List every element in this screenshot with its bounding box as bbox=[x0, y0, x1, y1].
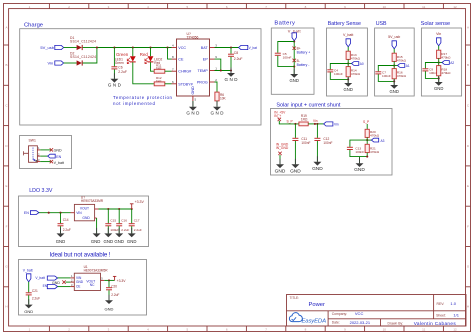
svg-text:GND: GND bbox=[312, 166, 323, 172]
svg-text:Valentin Cabanes: Valentin Cabanes bbox=[414, 321, 457, 326]
wire battery main bbox=[293, 40, 295, 74]
svg-text:Vin: Vin bbox=[334, 123, 339, 127]
svg-text:10: 10 bbox=[383, 327, 387, 331]
svg-text:Battery -: Battery - bbox=[297, 63, 310, 67]
EasyEDA logo bbox=[289, 313, 326, 325]
svg-text:470kΩ: 470kΩ bbox=[397, 74, 407, 78]
svg-text:C21: C21 bbox=[32, 289, 38, 293]
svg-text:TEMP: TEMP bbox=[197, 69, 208, 73]
svg-text:not implemented: not implemented bbox=[113, 101, 156, 106]
net flag 5V_usb (usb) bbox=[388, 35, 400, 49]
wire R20 to node bbox=[366, 137, 368, 144]
diode D1 SS14_C112424 bbox=[70, 36, 96, 50]
svg-text:GND: GND bbox=[434, 86, 443, 91]
svg-text:+3.3V: +3.3V bbox=[117, 279, 127, 283]
wire R18 to ground node bbox=[438, 76, 440, 82]
wire R14 to ground node bbox=[347, 77, 349, 83]
pad B+ Battery+ bbox=[293, 47, 311, 55]
capacitor C17 2.2uF bbox=[129, 209, 142, 233]
port V_bat bbox=[239, 45, 257, 50]
wire CE tie to VCC rail bbox=[168, 48, 172, 60]
wire IN_+ to R19 bbox=[279, 121, 299, 125]
svg-text:100nF: 100nF bbox=[382, 74, 391, 78]
wire LED1 cathode to R12 bbox=[133, 62, 154, 84]
title block TITLE: Power bbox=[290, 296, 326, 308]
svg-text:Power: Power bbox=[309, 302, 326, 308]
svg-text:100uF: 100uF bbox=[110, 228, 119, 232]
capacitor C12 100nF bbox=[314, 123, 332, 162]
ground solar sense bbox=[434, 77, 443, 91]
section SW1: box bbox=[20, 136, 72, 169]
svg-text:2.2uF: 2.2uF bbox=[111, 293, 119, 297]
capacitor C6 2.2uF bbox=[111, 48, 127, 79]
svg-text:A3: A3 bbox=[381, 139, 385, 143]
ground below C16 bbox=[114, 228, 124, 244]
section Charge: box bbox=[20, 29, 261, 125]
svg-text:10: 10 bbox=[383, 5, 387, 9]
svg-text:11: 11 bbox=[422, 327, 425, 331]
svg-text:A0: A0 bbox=[360, 62, 364, 66]
svg-text:A2: A2 bbox=[450, 61, 454, 65]
svg-text:C14: C14 bbox=[63, 218, 69, 222]
svg-text:C20: C20 bbox=[111, 285, 117, 289]
svg-text:PROG: PROG bbox=[197, 81, 208, 85]
svg-text:CE: CE bbox=[178, 58, 184, 62]
svg-text:TP4056: TP4056 bbox=[187, 36, 199, 40]
wire EP down to TEMP bbox=[215, 59, 221, 70]
svg-text:Sheet:: Sheet: bbox=[436, 314, 446, 318]
svg-text:Battery Sense: Battery Sense bbox=[328, 21, 361, 27]
regulator U1 HE9073A33M5R bbox=[74, 265, 108, 290]
svg-text:GND: GND bbox=[344, 87, 353, 92]
svg-text:1RΩ: 1RΩ bbox=[301, 117, 308, 121]
svg-text:LDO 3.3V: LDO 3.3V bbox=[29, 188, 53, 194]
title block Company: VCC bbox=[332, 311, 364, 316]
svg-text:B: B bbox=[5, 63, 7, 67]
svg-text:Solar sense: Solar sense bbox=[421, 21, 451, 27]
regulator U? HE9073A33MR bbox=[74, 196, 103, 221]
svg-text:GND: GND bbox=[104, 239, 114, 244]
wire main VCC rail bbox=[97, 47, 172, 49]
svg-text:12: 12 bbox=[453, 327, 457, 331]
resistor R15 470kOhm bbox=[392, 53, 407, 62]
wire R17 to node bbox=[438, 58, 440, 65]
svg-text:SW1: SW1 bbox=[29, 138, 36, 142]
svg-text:V_bat: V_bat bbox=[249, 46, 257, 50]
svg-text:E: E bbox=[5, 184, 7, 188]
svg-text:GND: GND bbox=[186, 111, 200, 116]
ground below C20 bbox=[105, 295, 114, 312]
resistor R14 470kOhm bbox=[346, 67, 361, 77]
svg-text:GND: GND bbox=[354, 167, 365, 173]
svg-text:IN_GND: IN_GND bbox=[276, 146, 289, 150]
svg-text:12: 12 bbox=[453, 5, 457, 9]
wire D2 up to main rail bbox=[83, 48, 97, 64]
svg-text:2.2uF: 2.2uF bbox=[121, 228, 129, 232]
wire IN_GND to ground bbox=[279, 155, 281, 164]
capacitor C9 100nF bbox=[422, 63, 438, 79]
wire Vin to D2 bbox=[64, 62, 77, 64]
svg-text:470kΩ: 470kΩ bbox=[351, 72, 361, 76]
svg-text:Battery +: Battery + bbox=[297, 51, 311, 55]
wire LED2 cathode to R11 bbox=[151, 62, 155, 71]
net label A1 bbox=[394, 64, 410, 69]
net label GND (ideal input) bbox=[52, 280, 66, 285]
svg-text:GND: GND bbox=[225, 77, 239, 82]
svg-text:GND: GND bbox=[56, 239, 66, 244]
ground below ldo bbox=[91, 228, 101, 244]
net label A2 bbox=[439, 61, 455, 66]
section Battery Sense: box bbox=[327, 28, 368, 96]
svg-text:F: F bbox=[467, 224, 469, 228]
border column ticks bottom bbox=[49, 326, 443, 332]
svg-text:2.2uF: 2.2uF bbox=[63, 228, 71, 232]
svg-text:H: H bbox=[5, 305, 7, 309]
resistor R18 470kOhm bbox=[437, 66, 452, 76]
svg-text:TITLE:: TITLE: bbox=[290, 296, 300, 300]
svg-text:GND: GND bbox=[108, 82, 122, 87]
svg-text:BAT: BAT bbox=[201, 46, 209, 50]
capacitor C13 100nF bbox=[347, 140, 367, 157]
svg-text:Drawn By:: Drawn By: bbox=[388, 321, 404, 325]
ground below C17 bbox=[127, 228, 137, 244]
resistor R11 1kOhm bbox=[154, 63, 171, 73]
svg-text:VOUT: VOUT bbox=[80, 206, 89, 210]
svg-text:1kΩ: 1kΩ bbox=[156, 66, 162, 70]
svg-text:S_P: S_P bbox=[287, 120, 294, 124]
title block frame bbox=[287, 295, 467, 327]
wire ldo GND pin to ground bbox=[96, 218, 98, 233]
svg-text:2.2uF: 2.2uF bbox=[234, 57, 243, 61]
wire S_P to R20 bbox=[366, 124, 368, 129]
svg-text:USB: USB bbox=[376, 21, 387, 27]
svg-text:SS14_C112424: SS14_C112424 bbox=[70, 40, 96, 44]
ground below C12 bbox=[312, 156, 323, 172]
svg-text:GND: GND bbox=[290, 168, 301, 174]
border row ticks right bbox=[466, 45, 471, 287]
svg-text:2.2uF: 2.2uF bbox=[118, 70, 127, 74]
title block Sheet: 1/1 bbox=[436, 313, 460, 318]
svg-text:100nF: 100nF bbox=[301, 141, 310, 145]
capacitor C20 2.2uF bbox=[106, 280, 119, 300]
svg-text:10K: 10K bbox=[220, 97, 227, 101]
svg-text:470kΩ: 470kΩ bbox=[351, 57, 361, 61]
switch SW1 bbox=[24, 138, 38, 162]
svg-text:GND: GND bbox=[91, 239, 101, 244]
ground battery bbox=[290, 69, 299, 83]
wire flag to R17 bbox=[438, 46, 440, 50]
ground below C11 bbox=[290, 159, 301, 175]
U? right pin stubs bbox=[210, 48, 215, 83]
port EN (ldo) bbox=[24, 211, 39, 216]
svg-text:GND: GND bbox=[191, 86, 195, 95]
svg-text:CE: CE bbox=[76, 285, 80, 289]
pad IN_+ / IN_+5V bbox=[274, 111, 286, 122]
capacitor C7 100nF bbox=[375, 66, 394, 82]
svg-text:GND: GND bbox=[105, 307, 114, 312]
wire U1 VOUT to output node bbox=[104, 279, 114, 281]
section USB: box bbox=[375, 28, 415, 96]
wire flag to R15 bbox=[393, 49, 395, 53]
ground below C21 bbox=[24, 299, 33, 314]
svg-text:GND: GND bbox=[54, 149, 62, 153]
net label A0 bbox=[348, 62, 364, 67]
wire D1 to node bbox=[83, 47, 97, 49]
svg-text:A: A bbox=[467, 25, 469, 29]
U? pin names bbox=[178, 46, 208, 95]
svg-text:C15: C15 bbox=[110, 218, 116, 222]
wire 5V_usb to D1 bbox=[64, 47, 77, 49]
svg-text:VIN: VIN bbox=[76, 211, 82, 215]
svg-text:Vin: Vin bbox=[313, 119, 318, 123]
svg-text:1.0: 1.0 bbox=[450, 301, 456, 306]
svg-text:+3.3V: +3.3V bbox=[135, 200, 145, 204]
svg-text:REV:: REV: bbox=[437, 302, 445, 306]
svg-text:5V_usb: 5V_usb bbox=[40, 45, 54, 50]
LED LED2 Red bbox=[145, 48, 163, 66]
capacitor C21 2.2uF bbox=[26, 282, 40, 305]
resistor R13 470kOhm bbox=[346, 51, 361, 60]
wire BAT to V_bat port bbox=[215, 46, 239, 48]
wire SW1 pin3 to V_batt label bbox=[40, 160, 64, 165]
svg-text:HE9073A33MR: HE9073A33MR bbox=[81, 199, 104, 203]
svg-text:V_batt: V_batt bbox=[35, 276, 45, 280]
capacitor C8 2.2uF bbox=[228, 48, 242, 71]
svg-text:V_batt: V_batt bbox=[54, 161, 64, 165]
svg-text:Green: Green bbox=[116, 52, 129, 57]
svg-text:2.2uF: 2.2uF bbox=[134, 228, 142, 232]
svg-text:1kΩ: 1kΩ bbox=[156, 79, 162, 83]
wire bottom node to ground tap bbox=[359, 157, 361, 164]
ground below C14 bbox=[56, 228, 66, 244]
capacitor C14 2.2uF bbox=[58, 213, 71, 234]
port 5V_usb bbox=[40, 45, 63, 50]
svg-text:GND: GND bbox=[390, 89, 399, 94]
svg-text:GND: GND bbox=[290, 78, 299, 83]
svg-text:C17: C17 bbox=[134, 218, 140, 222]
svg-text:GND: GND bbox=[211, 111, 225, 116]
capacitor C16 2.2uF bbox=[116, 209, 129, 233]
net flag V_batt (sense) bbox=[343, 33, 353, 47]
section Solar input: box bbox=[271, 109, 393, 176]
resistor R16 470kOhm bbox=[392, 69, 407, 79]
ground shunt divider bbox=[354, 158, 365, 174]
svg-text:EasyEDA: EasyEDA bbox=[302, 318, 327, 324]
svg-text:Vin: Vin bbox=[436, 32, 441, 36]
svg-text:Ideal but not available !: Ideal but not available ! bbox=[50, 251, 111, 258]
net flag V_batt (battery) bbox=[288, 28, 302, 40]
resistor R6 10K bbox=[215, 92, 227, 107]
LED LED1 Green bbox=[115, 48, 136, 66]
resistor R19 1R shunt bbox=[299, 114, 308, 126]
wire R15 to node bbox=[393, 61, 395, 68]
note temperature protection bbox=[113, 95, 173, 106]
svg-text:Temperature protection: Temperature protection bbox=[113, 95, 173, 100]
wire 3.3V output rail bbox=[99, 208, 133, 210]
SW1 pin stubs and numbers bbox=[37, 146, 40, 162]
svg-text:100nF: 100nF bbox=[283, 56, 292, 60]
U? left pin stubs bbox=[172, 48, 177, 84]
title block Drawn By: Valentin Cabanes bbox=[388, 321, 457, 326]
capacitor C11 100nF bbox=[292, 124, 310, 164]
wire EN to VIN bbox=[39, 212, 71, 214]
svg-text:V_batt: V_batt bbox=[23, 268, 33, 272]
svg-text:100nF: 100nF bbox=[323, 141, 332, 145]
power flag +3.3V (ideal) bbox=[113, 276, 126, 283]
section Solar sense: box bbox=[421, 28, 461, 96]
svg-text:GND: GND bbox=[127, 239, 137, 244]
U? ldo pin stubs bbox=[71, 209, 99, 218]
svg-text:C6: C6 bbox=[118, 65, 122, 69]
U1 pin stubs and numbers bbox=[70, 274, 104, 287]
op-amp U? TP4056 body bbox=[177, 32, 210, 96]
capacitor C5 100nF bbox=[275, 42, 294, 67]
wires ports to U1 bbox=[58, 278, 71, 287]
svg-text:A: A bbox=[5, 25, 7, 29]
port Vin bbox=[47, 61, 63, 66]
svg-text:Green: Green bbox=[115, 61, 124, 65]
svg-text:EN: EN bbox=[56, 155, 61, 159]
svg-text:Solar input + current shunt: Solar input + current shunt bbox=[276, 102, 340, 108]
net flag V_batt (ideal) bbox=[23, 268, 33, 282]
svg-text:470kΩ: 470kΩ bbox=[370, 134, 380, 138]
ground battery sense bbox=[344, 78, 353, 92]
wire SW1 pin2 to EN port bbox=[40, 154, 61, 159]
wire R13 to node bbox=[347, 59, 349, 66]
section LDO 3.3V: box bbox=[19, 196, 149, 247]
wire SW1 pin1 to GND label bbox=[40, 148, 62, 152]
port V_batt (ideal) bbox=[35, 276, 57, 280]
svg-text:Battery: Battery bbox=[274, 20, 295, 26]
svg-text:2.2uF: 2.2uF bbox=[32, 297, 40, 301]
svg-text:HE9073A33M5R: HE9073A33M5R bbox=[84, 269, 109, 273]
svg-text:VCC: VCC bbox=[355, 311, 364, 316]
svg-text:NC: NC bbox=[90, 283, 95, 287]
svg-text:SS14_C112424: SS14_C112424 bbox=[70, 55, 96, 59]
svg-text:B: B bbox=[467, 63, 469, 67]
svg-text:Date:: Date: bbox=[332, 321, 340, 325]
resistor R20 470kOhm bbox=[365, 129, 380, 137]
wire flag to R13 bbox=[347, 47, 349, 51]
svg-text:V_batt: V_batt bbox=[343, 33, 353, 37]
svg-text:Company:: Company: bbox=[332, 312, 348, 316]
port EN (ideal) bbox=[43, 284, 58, 289]
svg-text:GND: GND bbox=[24, 309, 33, 314]
wire R19 to Vin port bbox=[308, 123, 323, 125]
svg-text:470kΩ: 470kΩ bbox=[441, 71, 451, 75]
diode D2 SS14_C112424 bbox=[70, 51, 96, 65]
svg-text:A1: A1 bbox=[406, 64, 410, 68]
pad IN_GND bbox=[276, 142, 289, 155]
svg-text:STDBY#: STDBY# bbox=[178, 82, 193, 86]
svg-text:GND: GND bbox=[275, 168, 286, 174]
capacitor C4 100nF bbox=[327, 64, 348, 80]
ground below C15 bbox=[104, 228, 114, 244]
svg-text:100nF: 100nF bbox=[334, 72, 343, 76]
junction node dots on rail bbox=[96, 46, 169, 48]
wire TEMP to ground node bbox=[215, 69, 233, 71]
svg-text:GND: GND bbox=[114, 239, 124, 244]
svg-text:CHRG#: CHRG# bbox=[178, 70, 192, 74]
wire R21 to bottom node bbox=[366, 153, 368, 158]
ground below IN_GND bbox=[275, 159, 286, 175]
net flag Vin (solar sense) bbox=[436, 32, 441, 46]
wire PROG to R6 bbox=[215, 82, 218, 92]
svg-text:GND: GND bbox=[82, 216, 90, 220]
U? pin numbers bbox=[172, 44, 217, 102]
svg-text:C8: C8 bbox=[234, 51, 238, 55]
svg-text:EN: EN bbox=[24, 211, 29, 215]
svg-text:GND: GND bbox=[52, 281, 60, 285]
svg-text:Vin: Vin bbox=[47, 61, 53, 66]
net label A3 bbox=[367, 138, 384, 143]
svg-text:2022-03-21: 2022-03-21 bbox=[350, 320, 371, 325]
section Battery: box bbox=[271, 28, 314, 94]
wire R16 to ground node bbox=[393, 79, 395, 85]
border column ticks top bbox=[49, 4, 443, 9]
title block Date: 2022-03-21 bbox=[332, 320, 371, 325]
resistor R17 470kOhm bbox=[437, 50, 452, 59]
svg-text:F: F bbox=[6, 224, 8, 228]
svg-text:470kΩ: 470kΩ bbox=[441, 56, 451, 60]
svg-text:1/1: 1/1 bbox=[453, 313, 459, 318]
ground below C6 bbox=[108, 73, 122, 87]
svg-text:Charge: Charge bbox=[24, 23, 43, 29]
svg-text:C16: C16 bbox=[121, 218, 127, 222]
section Ideal: box bbox=[19, 260, 147, 316]
svg-text:E: E bbox=[467, 184, 469, 188]
port Vin (solar input) bbox=[324, 122, 339, 127]
svg-text:5V_usb: 5V_usb bbox=[388, 35, 400, 39]
ground below R6 bbox=[211, 101, 225, 115]
svg-text:11: 11 bbox=[422, 5, 425, 9]
power flag +3.3V bbox=[130, 200, 145, 209]
svg-text:100nF: 100nF bbox=[355, 150, 364, 154]
ground below U? bbox=[186, 101, 200, 115]
U? GND pin 5 wire bbox=[192, 96, 194, 107]
pad B- Battery- bbox=[293, 59, 310, 67]
resistor R21 470kOhm bbox=[365, 144, 380, 154]
svg-text:H: H bbox=[467, 305, 469, 309]
ground at TEMP/C8 bbox=[225, 68, 239, 83]
svg-text:Red: Red bbox=[140, 52, 149, 57]
svg-text:470kΩ: 470kΩ bbox=[370, 150, 380, 154]
resistor R12 1kOhm bbox=[154, 76, 171, 86]
svg-text:S_P: S_P bbox=[363, 120, 370, 124]
border row ticks left bbox=[4, 45, 9, 287]
svg-text:470kΩ: 470kΩ bbox=[397, 59, 407, 63]
capacitor C15 100uF bbox=[105, 209, 119, 233]
ground usb bbox=[390, 80, 399, 94]
title block REV: 1.0 bbox=[437, 301, 457, 306]
svg-text:EP: EP bbox=[203, 58, 208, 62]
svg-text:VCC: VCC bbox=[178, 46, 186, 50]
